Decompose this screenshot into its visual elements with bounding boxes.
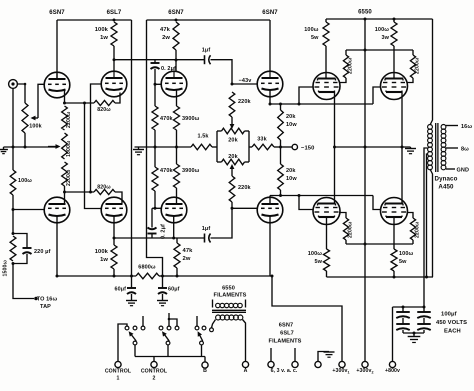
primary tap to filter caps xyxy=(424,148,428,307)
wire SW1 wiper down xyxy=(134,345,136,357)
wire 820 into V1b' cathode bar xyxy=(115,192,122,204)
svg-text:100ω: 100ω xyxy=(375,27,389,33)
wire to terminal B xyxy=(204,357,206,362)
tetrode 6550 LL xyxy=(313,198,340,225)
pot wiper arrow xyxy=(35,117,38,119)
svg-text:3w: 3w xyxy=(381,35,389,41)
svg-text:6800ω: 6800ω xyxy=(138,265,156,271)
svg-text:100ω: 100ω xyxy=(304,27,318,33)
wire filter cap bottom xyxy=(403,332,424,334)
potentiometer 20k balance lower xyxy=(217,161,222,163)
switch SW3 wiper arm xyxy=(200,335,203,341)
svg-text:100k: 100k xyxy=(29,124,41,130)
node 20k bottom xyxy=(279,194,282,197)
ground filter caps xyxy=(408,336,421,338)
capacitor 220uf feedback bypass xyxy=(13,234,27,248)
triode V2u driver upper xyxy=(161,71,187,97)
svg-text:6SN7: 6SN7 xyxy=(279,323,293,329)
wire UL cathode to output node xyxy=(334,92,336,147)
wire jack sleeve to ground rail xyxy=(12,88,14,147)
svg-text:1μf: 1μf xyxy=(202,226,211,232)
node feedback to grid xyxy=(12,208,15,211)
wire SW3 left stub xyxy=(196,316,198,326)
wire grid riser LR xyxy=(373,196,381,210)
capacitor 0.2uf lower xyxy=(148,233,157,235)
resistor 20k 10w upper xyxy=(280,104,282,110)
wire primary bottom to cathode rail xyxy=(430,169,433,277)
arrow 220k into pot lower xyxy=(231,169,233,177)
wire plate tap to 1uf lower xyxy=(174,237,204,239)
switch SW2 wiper arm xyxy=(165,335,170,341)
wire B+ rail top left A xyxy=(57,19,132,21)
filament transformer secondary winding xyxy=(216,315,221,320)
svg-text:10w: 10w xyxy=(286,176,297,182)
svg-text:450 VOLTS: 450 VOLTS xyxy=(436,320,467,326)
switch SW2 contacts xyxy=(159,326,163,330)
wire cap to V2u grid xyxy=(154,69,156,84)
node -150 junction xyxy=(279,146,282,149)
svg-text:6, 3 v. a. c.: 6, 3 v. a. c. xyxy=(271,368,298,374)
svg-text:60μf: 60μf xyxy=(115,287,127,293)
wire SW1 to CONTROL 1 xyxy=(118,324,127,361)
resistor 2200ohm screen LR xyxy=(407,213,414,219)
wire plate bus lower xyxy=(114,237,174,239)
wire V3u cathode lead xyxy=(269,90,271,104)
svg-text:2200ω: 2200ω xyxy=(415,57,421,74)
bus +300v2 vertical xyxy=(364,19,366,361)
wire V1a plate lead xyxy=(56,20,58,79)
wire V1b plate lead xyxy=(113,46,115,71)
resistor 820ohm upper xyxy=(94,100,115,105)
svg-text:33k: 33k xyxy=(257,137,267,143)
resistor 470k upper grid leak xyxy=(154,84,156,106)
svg-text:0. 2μf: 0. 2μf xyxy=(161,224,167,239)
svg-text:6550: 6550 xyxy=(358,10,372,16)
svg-text:6SL7: 6SL7 xyxy=(280,331,294,337)
tap GND secondary xyxy=(446,168,455,170)
potentiometer 1000ohm chain mid xyxy=(62,133,68,159)
svg-text:+300v1: +300v1 xyxy=(332,368,349,375)
terminal 6.3vac left xyxy=(270,348,272,361)
wire grid riser UL xyxy=(299,87,314,104)
terminal 6.3vac right xyxy=(294,348,296,361)
wire V1a' plate down to rail xyxy=(56,216,58,223)
arrow 220k into balance pot upper xyxy=(231,117,233,125)
svg-text:20k: 20k xyxy=(286,168,296,174)
node jack sleeve xyxy=(12,146,15,149)
wire cathode bus lower xyxy=(65,191,95,193)
wire pot bottom xyxy=(24,133,26,147)
resistor 2200ohm chain lower xyxy=(62,162,68,186)
filament transformer primary winding xyxy=(216,303,220,307)
wire feedback riser xyxy=(12,147,14,170)
terminal +300v1 xyxy=(339,361,345,367)
svg-text:100ω: 100ω xyxy=(399,251,413,257)
tetrode 6550 UL xyxy=(313,73,340,100)
svg-text:6SN7: 6SN7 xyxy=(262,10,278,16)
riser rail A to decoupling node xyxy=(131,20,133,276)
tetrode 6550 UR xyxy=(381,73,408,100)
svg-text:TAP: TAP xyxy=(40,304,51,310)
switch SW3 contacts xyxy=(195,326,199,330)
terminal +800v xyxy=(389,361,395,367)
capacitor 100uf 1 xyxy=(402,307,404,312)
terminal chassis ground xyxy=(315,361,321,367)
svg-text:6550: 6550 xyxy=(222,286,235,292)
resistor 3900ohm cathode V2u xyxy=(176,91,178,107)
wire jack to pot top xyxy=(17,84,25,103)
tetrode 6550 LR xyxy=(381,198,408,225)
switch SW3 wiper contact xyxy=(200,341,204,345)
wire secondary left to switch 3 xyxy=(212,320,216,328)
wire V3l plate down to rail xyxy=(269,216,271,276)
svg-text:470k: 470k xyxy=(160,168,173,174)
transformer T1 primary winding xyxy=(428,125,433,130)
wire UR cathode node to LR plate xyxy=(401,147,403,204)
wire SW1 right stub xyxy=(142,316,144,326)
svg-text:1μf: 1μf xyxy=(202,48,211,54)
resistor 220k lower bias xyxy=(229,176,235,202)
wire divider node xyxy=(12,195,14,234)
svg-text:2200ω: 2200ω xyxy=(415,221,421,238)
wire 1uf lower to grid node xyxy=(211,208,233,238)
svg-text:2: 2 xyxy=(153,376,156,382)
switch SW1 wiper arm xyxy=(131,335,136,341)
svg-text:A450: A450 xyxy=(438,184,454,191)
svg-text:470k: 470k xyxy=(160,116,173,122)
svg-text:CONTROL: CONTROL xyxy=(141,369,168,375)
svg-text:6SN7: 6SN7 xyxy=(168,10,184,16)
wire grid bus lower 6550 xyxy=(270,195,373,197)
svg-text:+300v2: +300v2 xyxy=(356,368,373,375)
capacitor 0.2uf upper xyxy=(154,60,156,63)
wire to 16 ohm tap xyxy=(13,264,34,299)
wire SW3 wiper down xyxy=(201,345,203,357)
terminal CONTROL 2 xyxy=(151,361,157,367)
svg-text:2200ω: 2200ω xyxy=(348,221,354,238)
resistor 47k 2w plate V2u xyxy=(173,22,179,50)
svg-text:100μf: 100μf xyxy=(441,312,457,318)
resistor 1.5k rail to box xyxy=(191,144,212,150)
wire grid V3l xyxy=(232,207,257,209)
svg-text:8ω: 8ω xyxy=(461,147,469,153)
capacitor 60uf right xyxy=(162,276,164,288)
wire V1b' grid cross xyxy=(85,103,102,209)
wire secondary right to terminal A xyxy=(243,320,246,362)
svg-text:2200ω: 2200ω xyxy=(66,169,72,186)
svg-text:220k: 220k xyxy=(238,185,251,191)
svg-text:820ω: 820ω xyxy=(97,107,111,113)
wire 6550 B+ rail xyxy=(326,18,433,20)
svg-text:1.5k: 1.5k xyxy=(197,134,209,140)
wire ground rail input xyxy=(4,146,58,148)
wire cathode rail lower xyxy=(327,276,434,278)
resistor 100k 1w plate V1b xyxy=(111,22,117,46)
resistor 2200ohm screen UR xyxy=(412,50,414,55)
capacitor 60uf left xyxy=(131,276,133,288)
svg-text:−150: −150 xyxy=(301,146,314,152)
svg-text:5w: 5w xyxy=(314,259,322,265)
svg-text:FILAMENTS: FILAMENTS xyxy=(269,339,302,345)
ground mid rail xyxy=(138,147,140,150)
wire B+ rail top B xyxy=(147,19,271,21)
ground input xyxy=(3,147,5,150)
filament transformer core xyxy=(212,309,246,311)
svg-text:2w: 2w xyxy=(162,35,170,41)
wire 47k to V2u plate xyxy=(175,50,177,72)
node grid lower xyxy=(231,207,234,210)
wire V3u plate lead xyxy=(269,20,271,71)
resistor 100ohm 5w cathode LR xyxy=(393,217,395,249)
potentiometer 100k volume xyxy=(22,103,28,133)
svg-text:2200ω: 2200ω xyxy=(66,111,72,128)
potentiometer 20k balance upper xyxy=(217,130,222,132)
svg-text:TO 16ω: TO 16ω xyxy=(37,297,58,303)
triode V3u phase driver upper xyxy=(257,71,283,97)
svg-text:B: B xyxy=(203,368,207,374)
svg-text:A: A xyxy=(244,368,248,374)
resistor 100ohm 5w plate UL xyxy=(325,19,327,22)
wire SW2 riser xyxy=(168,313,170,326)
filament transformer primary end brackets xyxy=(212,300,214,308)
svg-text:Dynaco: Dynaco xyxy=(435,176,458,183)
svg-text:820ω: 820ω xyxy=(97,185,111,191)
capacitor 100uf 3 xyxy=(423,307,425,312)
svg-text:220 μf: 220 μf xyxy=(34,249,51,255)
svg-text:FILAMENTS: FILAMENTS xyxy=(214,293,247,299)
svg-text:CONTROL: CONTROL xyxy=(105,369,132,375)
svg-text:20k: 20k xyxy=(228,138,238,144)
terminal CONTROL 1 xyxy=(115,361,121,367)
svg-text:47k: 47k xyxy=(183,248,194,254)
switch SW2 wiper contact xyxy=(166,341,170,345)
resistor 20k 10w lower xyxy=(280,147,282,164)
wire output node to LL plate xyxy=(334,147,336,204)
wire V1a' grid to feedback node xyxy=(13,209,44,211)
capacitor 1uf upper coupling xyxy=(204,55,206,64)
wire V3l cathode into bar xyxy=(269,196,271,205)
svg-text:1w: 1w xyxy=(100,257,108,263)
resistor 33k box to -150 xyxy=(249,146,252,148)
resistor 2200ohm chain upper xyxy=(62,106,68,130)
tap 16ohm xyxy=(446,125,458,127)
wire chain bottom junction xyxy=(64,186,66,192)
wire filter cap rail top xyxy=(393,306,425,308)
resistor 100ohm 3w plate UR xyxy=(393,18,396,21)
wire chain to V1a' cathode xyxy=(64,192,66,205)
wire grid bus upper 6550 xyxy=(270,103,373,105)
wire V1a cathode lead xyxy=(64,91,66,104)
resistor 220k upper bias xyxy=(229,92,235,117)
capacitor 100uf 2 xyxy=(402,318,404,324)
triode V1b follower upper xyxy=(101,71,127,97)
svg-text:2200ω: 2200ω xyxy=(348,57,354,74)
wire B+ rail y276 left xyxy=(57,275,136,277)
wire grid riser LL xyxy=(299,196,314,210)
riser rail B to decoupling node xyxy=(147,20,163,276)
input jack J1 xyxy=(9,80,18,89)
svg-text:100k: 100k xyxy=(95,27,109,33)
svg-text:100k: 100k xyxy=(95,249,109,255)
primary tap to cathode rail xyxy=(427,154,428,277)
wire to CONTROL 2 xyxy=(153,357,155,362)
svg-text:+800v: +800v xyxy=(385,368,400,374)
resistor 47k 2w lower xyxy=(176,238,178,243)
resistor 100ohm 5w cathode LL xyxy=(326,217,328,249)
svg-text:1000ω: 1000ω xyxy=(66,140,72,157)
svg-text:5w: 5w xyxy=(311,35,319,41)
triode V1b' follower lower xyxy=(101,197,127,223)
svg-text:20k: 20k xyxy=(286,114,296,120)
terminal -150 xyxy=(292,144,297,149)
svg-text:220k: 220k xyxy=(238,99,251,105)
switch SW1 wiper contact xyxy=(133,341,137,345)
wire cap lower to V2l grid xyxy=(151,208,153,227)
wire 820 to V1b cathode xyxy=(115,93,120,104)
svg-text:1500ω: 1500ω xyxy=(3,259,9,276)
resistor 2200ohm screen LL xyxy=(339,213,346,219)
wire +300v1 riser xyxy=(272,276,342,361)
wire rail to +300v1 riser xyxy=(173,275,272,277)
wire screen rail upper xyxy=(346,49,413,51)
node 20k top xyxy=(279,103,282,106)
terminal +300v2 xyxy=(362,361,368,367)
triode V1a input upper xyxy=(44,72,70,98)
wire cathode bus upper xyxy=(65,102,95,104)
svg-text:EACH: EACH xyxy=(444,329,461,335)
svg-text:100ω: 100ω xyxy=(308,251,322,257)
triode V3l phase driver lower xyxy=(257,197,283,223)
resistor 820ohm lower xyxy=(94,189,115,194)
terminal A xyxy=(242,361,248,367)
svg-text:GND: GND xyxy=(457,168,470,174)
wire plate node to coupling cap xyxy=(114,59,204,61)
resistor 1500ohm feedback xyxy=(10,236,16,261)
wire grid V3u xyxy=(232,83,257,85)
svg-text:3900ω: 3900ω xyxy=(182,168,200,174)
wire output rail mid xyxy=(335,146,411,148)
wire V1b grid cross xyxy=(91,84,102,192)
wire UL plate lead inner xyxy=(325,73,327,79)
wire 1uf to -43v node xyxy=(211,60,233,84)
svg-text:47k: 47k xyxy=(160,27,171,33)
ground chassis xyxy=(324,351,335,353)
svg-text:60μf: 60μf xyxy=(168,287,180,293)
wire control bus xyxy=(135,356,205,358)
arrow feedback wiper xyxy=(48,146,56,148)
svg-text:1: 1 xyxy=(117,376,120,382)
wire V1a grid xyxy=(38,84,44,118)
svg-text:5w: 5w xyxy=(399,259,407,265)
resistor 6800ohm decoupling xyxy=(136,273,159,279)
wire SW2 wiper down xyxy=(167,345,169,357)
svg-text:6SN7: 6SN7 xyxy=(49,10,65,16)
resistor 100k 1w plate V1b' xyxy=(113,238,115,245)
wire to -150 terminal xyxy=(281,146,293,148)
wire UR plate lead inner xyxy=(393,73,395,79)
wire screen rail lower xyxy=(346,243,413,245)
resistor 2200ohm screen UL xyxy=(345,50,347,55)
wire UR cathode down xyxy=(401,92,403,147)
triode V2l driver lower xyxy=(161,197,187,223)
capacitor 100uf 4 xyxy=(423,318,425,324)
resistor 470k lower grid leak xyxy=(154,147,156,167)
wire grid riser UR xyxy=(373,87,381,104)
svg-text:10w: 10w xyxy=(286,122,297,128)
resistor 100ohm feedback divider xyxy=(10,170,16,195)
transformer T1 secondary winding xyxy=(441,125,446,130)
wire mid ground rail xyxy=(135,146,192,148)
svg-text:1w: 1w xyxy=(100,35,108,41)
node -43v upper xyxy=(231,83,234,86)
wire B+ rail to primary top xyxy=(430,19,433,125)
ground output rail xyxy=(410,147,412,149)
svg-text:−43v: −43v xyxy=(239,78,253,84)
node pot bottom xyxy=(24,146,27,149)
svg-text:16ω: 16ω xyxy=(461,124,472,130)
svg-text:2w: 2w xyxy=(183,256,191,262)
svg-text:20k: 20k xyxy=(228,154,238,160)
wire +800v riser xyxy=(392,307,394,361)
svg-text:3900ω: 3900ω xyxy=(182,116,200,122)
svg-text:100ω: 100ω xyxy=(18,178,32,184)
terminal B xyxy=(202,362,208,368)
svg-text:6SL7: 6SL7 xyxy=(107,10,122,16)
triode V1a' input lower xyxy=(44,197,70,223)
tap 8ohm xyxy=(446,147,458,149)
wire V1b' plate lead xyxy=(113,216,115,238)
resistor 3900ohm cathode V2l xyxy=(176,147,178,164)
wire V2l plate lead xyxy=(173,216,175,239)
transformer T1 core xyxy=(435,123,437,172)
capacitor 1uf lower coupling xyxy=(204,234,206,243)
switch SW1 contacts xyxy=(125,326,129,330)
balance box sides xyxy=(216,131,218,162)
